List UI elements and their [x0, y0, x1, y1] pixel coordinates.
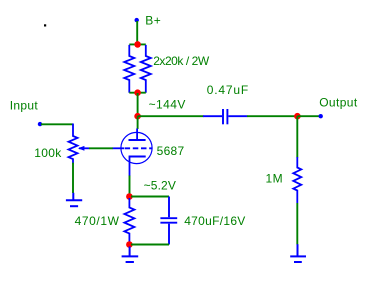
stray ink dot	[44, 24, 46, 26]
resistor 470/1W	[124, 198, 134, 242]
ground symbol (output load)	[290, 244, 306, 262]
wire output node down to 1M	[296, 116, 298, 157]
node Output terminal	[319, 114, 323, 118]
svg-text:5687: 5687	[157, 144, 185, 158]
ground symbol (input pot)	[66, 193, 82, 206]
grid pin	[113, 147, 125, 149]
wire pot bottom to ground	[72, 163, 74, 193]
grid dashes	[125, 147, 152, 149]
cathode bar	[129, 156, 146, 158]
cathode leg and pin	[129, 157, 131, 177]
wire coupling cap to output node	[247, 115, 297, 117]
wire B+ to resistor bank	[136, 21, 138, 44]
svg-text:1M: 1M	[266, 172, 283, 186]
wire resistor bank bottom bar	[129, 92, 146, 94]
resistor R right (2x20k pair)	[141, 45, 151, 93]
wire bypass cap bottom	[131, 244, 169, 246]
svg-text:470/1W: 470/1W	[75, 214, 120, 228]
svg-text:~144V: ~144V	[149, 97, 186, 111]
svg-text:100k: 100k	[34, 146, 62, 160]
svg-text:0.47uF: 0.47uF	[207, 83, 249, 97]
resistor R left (2x20k pair)	[124, 45, 134, 93]
wire 1M to ground	[296, 203, 298, 245]
wire plate node down to tube	[137, 116, 139, 129]
junction dot top of resistor bank	[134, 41, 141, 48]
junction dot cathode resistor bottom	[126, 241, 133, 248]
wire resistor bank to plate node	[137, 93, 139, 116]
resistor 1M	[293, 157, 301, 203]
wire input to potentiometer	[41, 123, 73, 125]
wire plate node to coupling cap	[138, 115, 204, 117]
node ~144V junction	[134, 113, 141, 120]
node Input terminal	[38, 122, 42, 126]
potentiometer 100k	[69, 124, 90, 164]
svg-text:2x20k / 2W: 2x20k / 2W	[153, 54, 210, 68]
svg-text:Input: Input	[10, 99, 39, 113]
svg-text:Output: Output	[319, 95, 358, 109]
node B+ terminal	[135, 18, 139, 22]
svg-text:470uF/16V: 470uF/16V	[184, 214, 245, 228]
wire cathode pin down to junction	[129, 176, 131, 195]
plate bar	[129, 139, 146, 141]
wire output node to terminal	[297, 115, 320, 117]
plate pin	[136, 129, 138, 141]
junction dot bottom of resistor bank	[134, 89, 141, 96]
envelope circle	[121, 132, 152, 163]
wiper line	[79, 147, 89, 149]
wiper arrowhead	[78, 146, 85, 151]
capacitor 0.47uF	[203, 109, 247, 124]
junction dot cathode node	[126, 193, 133, 200]
wire cathode node to bypass cap	[131, 196, 169, 198]
triode U1 5687	[113, 129, 153, 177]
wire resistor bank top bar	[129, 43, 146, 45]
capacitor 470uF/16V	[160, 197, 177, 245]
svg-text:~5.2V: ~5.2V	[144, 179, 176, 193]
ground symbol (cathode)	[122, 247, 139, 263]
svg-text:B+: B+	[145, 14, 161, 28]
wire wiper to grid	[89, 147, 113, 149]
junction dot output node	[294, 113, 301, 120]
